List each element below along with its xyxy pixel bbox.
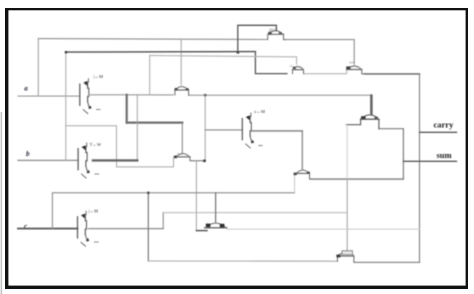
svg-text:carry: carry (434, 120, 455, 130)
wire carry output stub (420, 131, 457, 133)
wire b input horizontal (18, 159, 78, 161)
svg-text:≤←M: ≤←M (254, 109, 265, 114)
transistor M4 inverter pair mid (242, 113, 254, 148)
wire inv4 input riser (204, 95, 206, 161)
transistor Q3 PMOS on abar line (175, 87, 190, 96)
wire big pmos gate vertical (371, 95, 373, 115)
wire sum node horizontal (310, 178, 403, 180)
wire c input horizontal (18, 228, 78, 230)
page edge scan artifact (1, 112, 2, 294)
svg-text:•••: ••• (94, 239, 99, 244)
svg-text:a: a (24, 85, 28, 93)
wire big pmos drain horizontal (379, 128, 404, 130)
svg-text:201: 201 (177, 152, 182, 156)
wire long light y261 (148, 260, 337, 262)
wire abar up riser (149, 55, 151, 94)
wire a input horizontal (18, 95, 79, 97)
transistor M1 inverter-a PMOS+NMOS pair (80, 79, 92, 114)
junction dot Q1 gate tap (237, 51, 240, 54)
wire Q5 gate vertical (181, 123, 183, 153)
svg-text:|←M: |←M (89, 208, 99, 213)
wire gate of Q3 vertical (180, 39, 182, 85)
wire Q3 drain long to U-big gate (190, 94, 372, 96)
wire cross vertical x137 (136, 95, 138, 161)
svg-text:•••: ••• (258, 143, 263, 148)
wire b riser vertical (65, 52, 67, 160)
junction dot b corner (65, 51, 67, 53)
wire a top horizontal (38, 38, 267, 41)
wire M4 output (252, 130, 303, 132)
wire a net to Q4 gate (286, 40, 355, 65)
wire M3 output (89, 228, 164, 230)
wire a riser vertical (37, 39, 39, 96)
svg-text:b: b (26, 150, 30, 158)
wire M3 out riser (162, 213, 164, 229)
wire Q7 left source stub (196, 230, 207, 232)
transistor Q1 top PMOS (268, 31, 286, 40)
wire x347 vertical lower to Q8 gate (346, 179, 348, 250)
transistor Q8 bottom-right PMOS (336, 251, 355, 263)
transistor Q4 PMOS (gate a) (346, 66, 365, 74)
transistor Q2 PMOS (gate abar) (293, 67, 305, 74)
wire long faint y212 (163, 212, 346, 214)
svg-text:|←M: |←M (94, 74, 104, 79)
wire abar thick branch down (126, 95, 128, 123)
svg-text:T←W: T←W (90, 142, 102, 147)
transistor M2 inverter-b PMOS+NMOS pair (78, 143, 90, 178)
wire b top horizontal dark (66, 51, 256, 54)
wire inv4 input horizontal (205, 129, 242, 131)
wire Q6 gate vertical (301, 131, 303, 169)
wire carry long vertical (419, 74, 421, 263)
transistor U1 big PMOS (346, 95, 379, 129)
wire b down to y73 (255, 52, 287, 73)
wire bbar thick output of M2 (93, 159, 137, 161)
wire connector to Q6 left (294, 176, 296, 193)
transistor Q5 small PMOS (174, 154, 205, 161)
transistor Q6 sum PMOS (294, 170, 311, 179)
svg-text:2014: 2014 (269, 29, 276, 33)
svg-text:20: 20 (290, 64, 294, 68)
junction dot x204 y160 (203, 160, 206, 163)
transistor M3 inverter-c pair (78, 211, 90, 246)
wire Q8 drain to carry vertical (355, 261, 420, 263)
wire carry top horizontal (365, 73, 420, 75)
svg-text:•••: ••• (95, 171, 100, 176)
wire Q7 drain long faint (227, 228, 420, 230)
wire x196 vertical down (195, 161, 197, 231)
svg-text:204: 204 (349, 61, 354, 65)
wire Q1 gate loop (238, 25, 277, 52)
wire abar to Q2 gate (150, 56, 297, 65)
wire big pmos drain down (402, 129, 404, 179)
svg-text:sum: sum (437, 150, 452, 160)
junction dot x205 (204, 94, 206, 96)
wire Q2 drain to Q4 source (304, 70, 347, 74)
wire sum output stub (403, 160, 456, 162)
junction dot x148 (147, 192, 149, 194)
wire abar output of M1 (89, 94, 173, 96)
wire x148 vertical (147, 193, 149, 261)
wire c branch up and long right (52, 193, 294, 229)
wire faint vdd vertical x347 upper (346, 125, 348, 179)
wire b branch to pass gate row (66, 126, 174, 167)
wire Q7 gate vertical (215, 193, 217, 222)
svg-text:•••: ••• (96, 107, 101, 112)
wire abar thick horizontal (127, 121, 183, 123)
transistor Q7 bottom-middle PMOS (205, 223, 227, 228)
